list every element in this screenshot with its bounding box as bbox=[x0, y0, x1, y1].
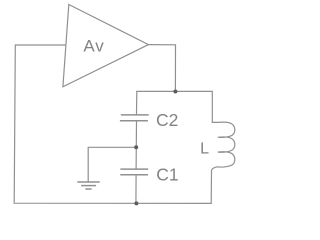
svg-text:C1: C1 bbox=[156, 165, 178, 185]
svg-text:C2: C2 bbox=[156, 110, 178, 130]
svg-text:L: L bbox=[200, 141, 209, 158]
svg-text:Av: Av bbox=[83, 36, 104, 55]
